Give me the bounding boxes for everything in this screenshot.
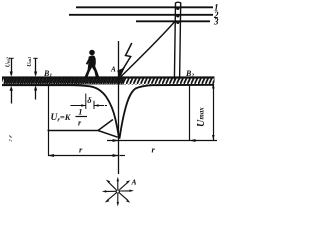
step voltage arrow down (pair 2) <box>35 59 37 76</box>
broken conductor wire falling to ground <box>121 22 175 77</box>
svg-text:Umax: Umax <box>196 107 207 127</box>
wire 1 <box>76 6 213 8</box>
svg-text:Uш1: Uш1 <box>27 57 33 67</box>
wire 2 <box>69 14 213 16</box>
svg-text:B1: B1 <box>43 69 52 79</box>
potential curve (funnel) <box>2 85 214 138</box>
node B2 extension line <box>189 85 191 141</box>
node A extension line (center of funnel) <box>118 41 120 174</box>
svg-text:1: 1 <box>78 107 82 117</box>
star center circle <box>116 190 119 193</box>
person walking <box>83 50 99 78</box>
ground line <box>2 76 215 78</box>
svg-text:r: r <box>78 119 82 128</box>
formula Ur = K I/r <box>51 107 83 128</box>
pole <box>174 2 180 79</box>
Umax dimension line <box>213 84 215 141</box>
svg-text:A: A <box>131 177 137 186</box>
pole insulator dots <box>176 7 179 24</box>
lightning arrow striking point A <box>123 43 132 69</box>
left r dimension line <box>48 155 119 157</box>
formula leader line to curve <box>48 120 118 138</box>
right r dimension line <box>107 140 217 142</box>
svg-text:r: r <box>79 145 83 155</box>
svg-text:3: 3 <box>213 17 219 27</box>
svg-text:B2: B2 <box>185 69 194 79</box>
node B1 extension line <box>48 85 50 156</box>
svg-text:Ur=K: Ur=K <box>51 112 72 124</box>
step voltage arrow down (pair 1) <box>11 59 13 76</box>
svg-text:A: A <box>110 66 116 74</box>
svg-text:δ: δ <box>87 95 92 105</box>
formula fraction bar <box>76 116 88 118</box>
ground hatching <box>2 79 215 85</box>
scan speck artifact <box>9 136 12 142</box>
wire 3 <box>136 20 210 22</box>
svg-text:r: r <box>152 145 156 155</box>
step voltage arrow up (pair 1) <box>11 88 13 104</box>
step width dimension "в" <box>71 94 108 110</box>
current spreading star (top view of point A) <box>105 180 131 204</box>
step voltage arrow up (pair 2) <box>35 88 37 100</box>
